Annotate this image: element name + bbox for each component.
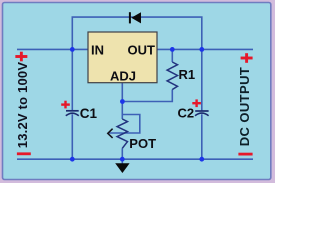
node OUT-R1 junction (170, 47, 175, 52)
diode D1 (129, 12, 141, 23)
wire input (left to IN pin) (17, 48, 88, 50)
wire ADJ pin down (121, 83, 123, 119)
wire top loop with diode (72, 17, 202, 49)
svg-text:C1: C1 (80, 106, 98, 121)
wire output (OUT pin to right) (157, 48, 253, 50)
wire bottom rail (17, 158, 253, 160)
node OUT-C2 junction (199, 47, 204, 52)
svg-text:C2: C2 (178, 106, 195, 121)
ground (115, 163, 129, 173)
label output plus (241, 53, 253, 63)
node bottom-POT junction (120, 157, 125, 162)
node IN junction (70, 47, 75, 52)
label output minus (238, 153, 252, 156)
svg-text:DC OUTPUT: DC OUTPUT (237, 67, 252, 146)
potentiometer POT (108, 119, 156, 151)
node bottom-C2 junction (199, 157, 204, 162)
wire POT bottom lead (121, 148, 123, 164)
svg-text:IN: IN (91, 42, 104, 57)
svg-text:ADJ: ADJ (110, 69, 136, 84)
svg-text:R1: R1 (179, 67, 196, 82)
op-amp U1 regulator box (88, 32, 157, 84)
label input plus (15, 52, 27, 62)
resistor R1 (167, 62, 195, 90)
node ADJ junction (120, 99, 125, 104)
capacitor C2 (178, 99, 209, 120)
wire ADJ node to R1 bottom (122, 90, 172, 102)
wire C1 branch (71, 49, 73, 159)
label input voltage (15, 62, 30, 149)
svg-text:13.2V to 100V: 13.2V to 100V (15, 62, 30, 149)
border frame (0, 0, 275, 183)
wire POT wiper loop (109, 115, 140, 134)
svg-text:OUT: OUT (128, 42, 156, 57)
label input minus (17, 152, 31, 155)
label DC OUTPUT (237, 67, 252, 146)
capacitor C1 (61, 101, 97, 121)
wire C2 branch (201, 49, 203, 159)
wire R1 top lead (171, 49, 173, 62)
node bottom-C1 junction (70, 157, 75, 162)
svg-text:POT: POT (129, 136, 156, 151)
